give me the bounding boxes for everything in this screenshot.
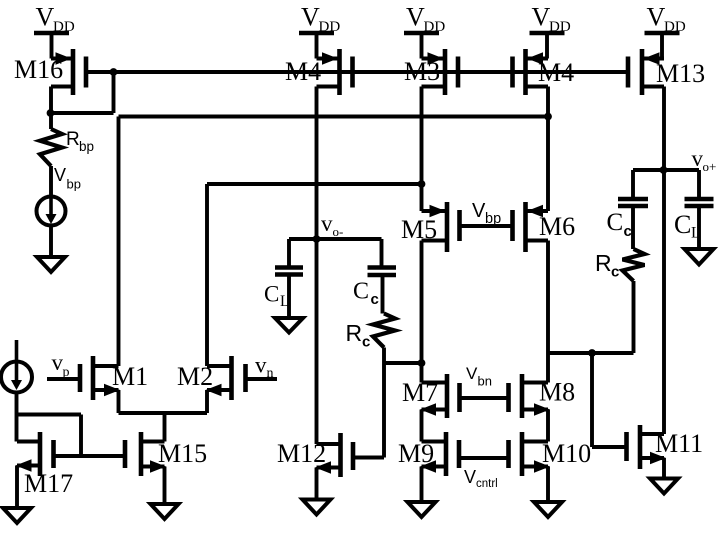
node M16 gate-drain tie <box>110 68 118 76</box>
transistor M1 (NMOS input, gate left) <box>91 356 96 400</box>
current source tail bias (left) <box>15 340 19 384</box>
svg-text:M3: M3 <box>404 57 440 86</box>
wire M15 source to ground <box>163 467 167 505</box>
node M3 drain / M5 source <box>418 180 426 188</box>
wire Rc node to M5 drain <box>384 361 422 365</box>
svg-text:bp: bp <box>67 177 81 192</box>
node vo- <box>313 235 321 243</box>
wire CL right to ground <box>697 206 701 249</box>
transistor M17 (NMOS diode-connected) <box>38 432 43 476</box>
transistor M5 (PMOS cascode) <box>445 202 450 252</box>
wire M4 drain vertical down to node vo- and M12 <box>315 87 319 445</box>
svg-text:M16: M16 <box>14 55 63 84</box>
svg-text:V: V <box>472 200 486 222</box>
node vo+ <box>660 166 668 174</box>
svg-text:M12: M12 <box>277 439 326 468</box>
wire rail down to M1 drain <box>117 117 121 367</box>
wire Vbp gate tie M5-M6 <box>460 224 513 228</box>
transistor M4 (left PMOS current source) <box>337 49 342 95</box>
transistor M13 (PMOS output, mirrored) <box>640 49 645 95</box>
wire down to M11 gate <box>590 353 594 447</box>
svg-text:M2: M2 <box>177 362 213 391</box>
wire Rc down to M12 gate <box>382 348 386 458</box>
power symbol VDD (M3) <box>404 31 439 36</box>
transistor M15 (NMOS tail current sink) <box>139 432 144 476</box>
svg-text:M17: M17 <box>24 469 73 498</box>
svg-text:M5: M5 <box>401 215 437 244</box>
svg-text:C: C <box>674 210 691 239</box>
wire vo- row M2 drain to M5 source <box>207 182 422 186</box>
transistor M6 (PMOS cascode, mirrored) <box>523 202 528 252</box>
ground (M15) <box>151 504 179 519</box>
capacitor CC (right) <box>618 197 648 202</box>
svg-text:M6: M6 <box>539 212 575 241</box>
wire vo+ to CL right <box>697 170 701 199</box>
wire M5 drain down to M7 <box>420 241 424 383</box>
svg-text:c: c <box>624 223 632 240</box>
wire M11 gate lead <box>592 445 627 449</box>
wire vo- to CL <box>289 237 317 241</box>
wire current source to ground <box>49 226 53 258</box>
ground (M9) <box>408 502 436 517</box>
transistor M7 (NMOS cascode) <box>445 374 450 418</box>
wire vo+ row <box>633 168 699 172</box>
wire input vp stub <box>47 377 79 381</box>
capacitor CL (right) <box>685 197 714 202</box>
wire M16 drain down to Rbp <box>49 87 53 130</box>
wire M2 drain up to vo- row <box>205 184 209 366</box>
svg-text:c: c <box>371 291 379 308</box>
current source Ibp <box>37 197 66 226</box>
ground (M12) <box>303 500 331 515</box>
svg-text:M8: M8 <box>539 378 575 407</box>
wire vo+ to CC right <box>631 170 635 199</box>
svg-text:V: V <box>647 3 666 32</box>
ground (CL left) <box>275 318 303 333</box>
transistor M11 (NMOS output sink, mirrored) <box>638 425 643 469</box>
svg-text:V: V <box>406 3 425 32</box>
wire Rc right down to M8 drain row <box>632 281 636 353</box>
svg-text:M11: M11 <box>655 429 703 458</box>
svg-text:V: V <box>532 3 551 32</box>
node M11 gate tap <box>588 349 596 357</box>
svg-text:V: V <box>464 467 476 487</box>
wire tail current source down <box>15 393 19 442</box>
wire branch to M17/M15 gates <box>17 413 82 417</box>
transistor M12 (NMOS output sink, gate right) <box>338 433 343 477</box>
wire CC right to Rc right <box>631 206 635 249</box>
svg-text:o-: o- <box>333 224 344 239</box>
svg-text:o+: o+ <box>703 159 717 174</box>
power symbol VDD (M16) <box>34 31 69 36</box>
svg-text:R: R <box>595 250 612 276</box>
wire M2 source to tail <box>205 390 209 413</box>
svg-text:bn: bn <box>478 374 492 389</box>
ground (bias chain) <box>37 257 65 272</box>
wire M7 source down to M9 <box>420 410 424 442</box>
svg-text:M4: M4 <box>285 57 321 86</box>
power symbol VDD (M4 right) <box>530 31 565 36</box>
svg-text:DD: DD <box>424 19 446 35</box>
svg-text:C: C <box>353 279 369 305</box>
wire M8 source down to M10 <box>546 410 550 442</box>
wire M11 source to ground <box>662 458 666 479</box>
svg-text:DD: DD <box>664 19 686 35</box>
wire Vcntrl gate tie M9-M10 <box>459 456 509 460</box>
wire M1 source to tail <box>117 390 121 413</box>
node M4 right drain / rail <box>544 113 552 121</box>
wire M8 drain to Rc right / M11 gate node <box>548 351 634 355</box>
svg-text:bp: bp <box>79 139 94 154</box>
wire tail node <box>119 411 208 415</box>
svg-text:c: c <box>611 264 619 281</box>
wire M13 drain vertical down to M11 <box>662 87 666 435</box>
svg-text:V: V <box>54 165 66 185</box>
svg-text:M9: M9 <box>398 439 434 468</box>
transistor M10 (NMOS sink, mirrored) <box>520 432 525 476</box>
transistor M16 (PMOS, diode-connected bias) <box>71 49 76 95</box>
svg-text:M1: M1 <box>112 362 148 391</box>
transistor M2 (NMOS input, gate right) <box>229 356 234 400</box>
wire input vn stub <box>246 377 278 381</box>
capacitor CL (left) <box>275 265 303 270</box>
transistor M8 (NMOS cascode, mirrored) <box>520 374 525 418</box>
svg-text:cntrl: cntrl <box>476 478 498 490</box>
wire M17 source to ground <box>15 466 19 509</box>
ground (M17) <box>3 508 31 523</box>
svg-text:R: R <box>346 320 363 346</box>
wire tail to M15 drain <box>163 413 167 442</box>
capacitor CC (left) <box>368 265 397 270</box>
svg-text:v: v <box>255 353 267 378</box>
svg-text:M13: M13 <box>656 59 705 88</box>
resistor Rc (left) <box>373 314 395 348</box>
wire CL to ground <box>287 275 291 319</box>
transistor M3 (PMOS current source) <box>443 49 448 95</box>
wire Vbn gate tie M7-M8 <box>460 396 509 400</box>
svg-text:M7: M7 <box>402 378 438 407</box>
wire M17 gate to M15 gate <box>54 454 126 458</box>
power symbol VDD (M13) <box>645 31 680 36</box>
ground (M10) <box>534 502 562 517</box>
wire M9 source to ground <box>420 467 424 503</box>
wire cascode rail M1 drain to M4 drains <box>119 115 549 119</box>
svg-text:M10: M10 <box>542 439 591 468</box>
wire Rbp to current source <box>49 166 53 197</box>
wire M10 source to ground <box>546 467 550 503</box>
power symbol VDD (M4 left) <box>299 31 334 36</box>
svg-text:M15: M15 <box>158 439 207 468</box>
wire M16 drain tie <box>51 111 114 115</box>
svg-text:bp: bp <box>485 211 501 227</box>
svg-text:c: c <box>362 334 370 351</box>
ground (CL right) <box>685 249 714 265</box>
resistor Rbp <box>40 129 62 166</box>
wire M3 drain down to M5 source <box>420 87 424 212</box>
wire CC to Rc <box>381 275 385 314</box>
wire M4 right drain down to M6 source <box>546 87 550 212</box>
svg-text:DD: DD <box>549 19 571 35</box>
node M5 drain / M7 drain / Rc <box>418 359 426 367</box>
resistor Rc (right) <box>623 249 645 281</box>
wire M6 drain down to M8 <box>546 241 550 383</box>
wire M16 gate rail to all PMOS gates <box>86 70 628 74</box>
svg-text:DD: DD <box>319 19 341 35</box>
svg-text:R: R <box>66 129 80 150</box>
wire M12 source to ground <box>315 468 319 500</box>
wire vo- to CC <box>317 237 382 241</box>
transistor M4 (right PMOS current source, mirrored) <box>523 49 528 95</box>
wire M12 gate lead <box>353 456 384 460</box>
transistor M9 (NMOS sink) <box>444 432 449 476</box>
svg-text:V: V <box>36 3 55 32</box>
svg-text:V: V <box>466 364 478 383</box>
svg-text:C: C <box>607 209 624 236</box>
svg-text:DD: DD <box>53 19 75 35</box>
svg-text:v: v <box>321 211 333 236</box>
ground (M11) <box>650 479 678 494</box>
svg-text:M4: M4 <box>538 58 574 87</box>
svg-text:V: V <box>301 3 320 32</box>
svg-text:C: C <box>264 282 279 307</box>
